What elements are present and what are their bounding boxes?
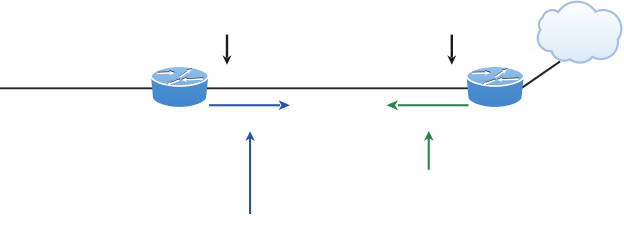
wire: main horizontal link [0,87,495,89]
arrow: blue right arrow under router R1 [209,100,290,110]
arrow: green up arrow [424,131,434,170]
arrow: black down arrow over left link [223,35,232,65]
arrow: blue up arrow from bottom edge [245,131,255,214]
wire: link router2 to cloud [518,62,560,91]
router R1 [151,66,208,107]
router R2 [467,66,524,107]
arrow: black down arrow over right link [447,35,456,65]
cloud [538,2,622,63]
arrow: green left arrow under router R2 [387,100,469,110]
